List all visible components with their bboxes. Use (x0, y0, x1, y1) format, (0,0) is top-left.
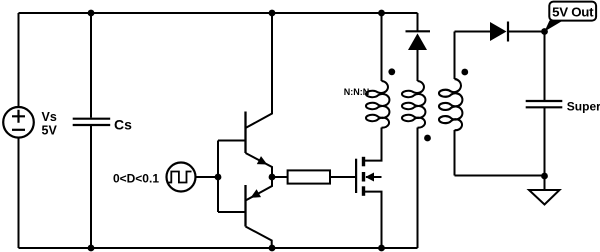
svg-text:5V Out: 5V Out (552, 5, 594, 20)
transformer winding 3 secondary top wire (454, 32, 456, 80)
svg-text:Vs: Vs (42, 110, 57, 124)
supercapacitor plates (526, 101, 563, 107)
MOSFET M1 channel segments (362, 157, 365, 196)
transformer winding 3 bottom wire (454, 130, 456, 176)
wire secondary top to diode D2 (455, 31, 491, 33)
transformer winding 1 phase dot (388, 68, 395, 75)
wire left branch lower (18, 138, 20, 248)
wire bottom rail (19, 247, 418, 249)
wire left branch upper (18, 13, 20, 107)
diode D1 triangle (408, 33, 427, 50)
diode D1 cathode bar (406, 30, 431, 32)
ground stub (544, 176, 546, 191)
junction node bottom rail at PNP collector (269, 245, 276, 252)
svg-text:N:N:N: N:N:N (344, 87, 370, 97)
transistor Q1 NPN bar (244, 112, 246, 154)
junction node top rail at Cs (88, 10, 95, 17)
wire secondary bottom (455, 175, 545, 177)
junction node top rail at primary (378, 10, 385, 17)
diode D2 triangle (490, 22, 507, 41)
transformer winding 3 phase dot (461, 69, 468, 76)
transistor Q2 emitter (246, 177, 273, 201)
transistor Q2 collector (246, 227, 272, 249)
MOSFET M1 drain wire (364, 128, 382, 161)
svg-text:Super: Super (567, 99, 600, 113)
wire top rail (19, 12, 418, 14)
wire supercap down to ground node (544, 107, 546, 176)
voltage source Vs (3, 107, 34, 138)
transistor Q2 base wire (218, 211, 246, 213)
wire pulse source to base node (195, 176, 218, 178)
transistor Q2 PNP bar (244, 185, 246, 227)
MOSFET M1 gate bar (355, 159, 357, 193)
junction node emitter (269, 174, 276, 181)
5V Out tag box (549, 2, 596, 21)
junction node bottom rail at Cs (88, 245, 95, 252)
transistor Q1 base wire (218, 140, 246, 142)
transistor Q2 emitter arrow (251, 189, 262, 198)
junction node top rail at collector (269, 10, 276, 17)
wire resistor to gate (330, 176, 355, 178)
diode D1 bottom wire (417, 50, 419, 81)
wire output node down to supercap (544, 32, 546, 102)
junction node output (541, 28, 548, 35)
MOSFET M1 body arrow (365, 173, 374, 182)
transformer winding 2 clamp coil (402, 81, 425, 128)
capacitor Cs plates (73, 119, 111, 125)
transistor Q1 emitter arrow (257, 156, 268, 164)
5V Out tag pointer (545, 21, 564, 32)
capacitor Cs wire upper (90, 13, 92, 118)
wire base vertical (217, 141, 219, 213)
transformer winding 2 phase dot (424, 135, 431, 142)
wire emitter node to resistor (272, 176, 288, 178)
MOSFET M1 body wire (366, 176, 382, 178)
resistor R1 (288, 170, 330, 183)
svg-text:0<D<0.1: 0<D<0.1 (113, 172, 159, 186)
MOSFET M1 source wire (364, 192, 382, 248)
junction node bottom rail at MOSFET source (378, 245, 385, 252)
diode D1 top wire (417, 13, 419, 31)
junction node secondary ground (541, 173, 548, 180)
transformer winding 1 primary coil (366, 81, 389, 128)
ground symbol (529, 190, 560, 205)
capacitor Cs wire lower (90, 126, 92, 248)
pulse source waveform (169, 172, 192, 183)
svg-text:Cs: Cs (114, 116, 132, 132)
diode D2 cathode bar (507, 22, 509, 42)
transformer winding 1 primary top wire (381, 13, 383, 81)
wire diode D2 to output node (508, 31, 545, 33)
transformer winding 3 secondary coil (439, 79, 462, 130)
transformer winding 2 bottom wire (417, 128, 419, 249)
transistor Q1 collector (246, 13, 273, 128)
transistor Q1 emitter (246, 153, 273, 177)
pulse source circle (167, 163, 196, 192)
junction node base (215, 174, 222, 181)
svg-text:5V: 5V (42, 124, 58, 138)
